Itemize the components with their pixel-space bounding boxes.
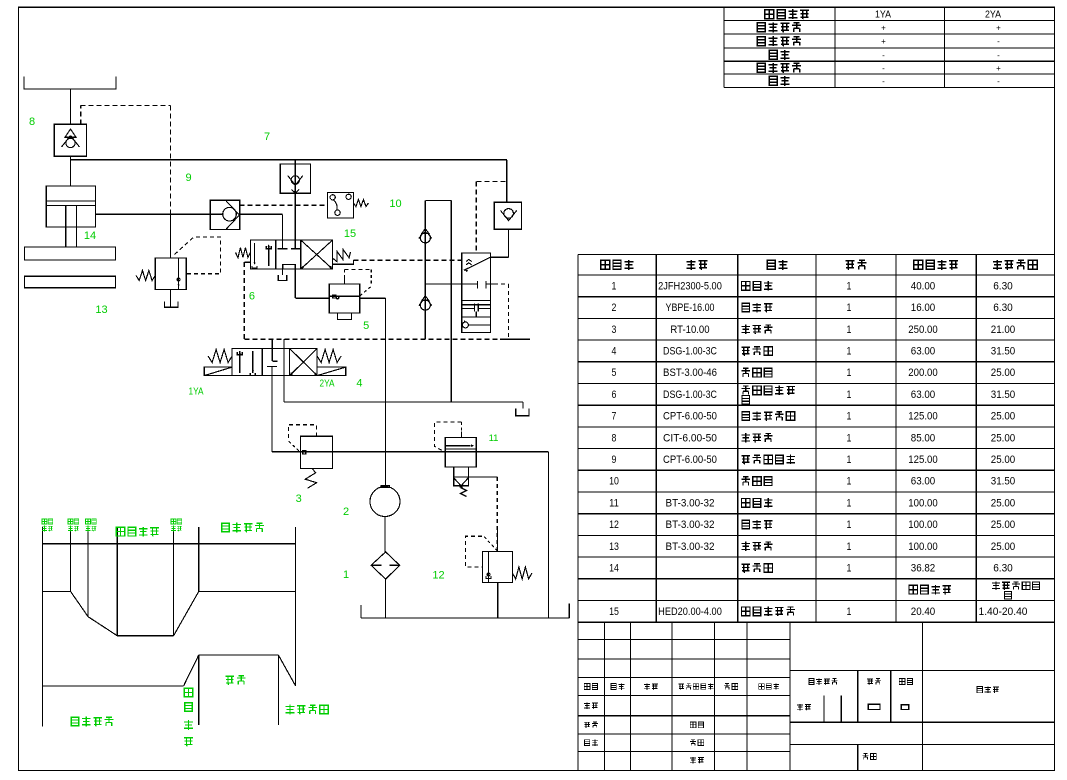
svg-text:9: 9	[186, 172, 192, 184]
svg-text:RT-10.00: RT-10.00	[670, 324, 709, 336]
svg-text:1: 1	[847, 497, 852, 509]
svg-text:13: 13	[95, 304, 107, 316]
svg-text:-: -	[882, 51, 885, 60]
svg-text:DSG-1.00-3C: DSG-1.00-3C	[663, 389, 717, 401]
svg-text:1: 1	[847, 476, 852, 488]
svg-text:1: 1	[847, 345, 852, 357]
svg-text:250.00: 250.00	[908, 324, 937, 336]
svg-text:100.00: 100.00	[908, 541, 937, 553]
svg-text:-: -	[997, 77, 1000, 86]
svg-text:1: 1	[612, 280, 617, 292]
svg-text:11: 11	[489, 433, 499, 444]
svg-text:1: 1	[847, 541, 852, 553]
svg-text:31.50: 31.50	[991, 345, 1016, 357]
svg-text:HED20.00-4.00: HED20.00-4.00	[658, 606, 722, 618]
svg-text:+: +	[881, 23, 886, 32]
svg-text:1: 1	[847, 432, 852, 444]
svg-text:1: 1	[847, 389, 852, 401]
svg-text:1: 1	[847, 324, 852, 336]
svg-text:1: 1	[847, 454, 852, 466]
svg-text:DSG-1.00-3C: DSG-1.00-3C	[663, 345, 717, 357]
svg-text:-: -	[882, 64, 885, 73]
svg-text:+: +	[996, 64, 1001, 73]
svg-text:1: 1	[847, 411, 852, 423]
svg-text:25.00: 25.00	[991, 519, 1016, 531]
svg-text:6: 6	[249, 291, 255, 303]
svg-text:10: 10	[609, 476, 619, 488]
svg-text:1: 1	[847, 280, 852, 292]
svg-text:31.50: 31.50	[991, 476, 1016, 488]
svg-text:6.30: 6.30	[993, 280, 1013, 292]
svg-text:10: 10	[389, 198, 401, 210]
svg-text:63.00: 63.00	[911, 345, 936, 357]
svg-text:12: 12	[432, 570, 444, 582]
svg-text:1: 1	[847, 519, 852, 531]
svg-text:2YA: 2YA	[320, 378, 335, 390]
svg-text:3: 3	[612, 324, 617, 336]
svg-text:5: 5	[612, 367, 617, 379]
svg-text:1: 1	[847, 367, 852, 379]
svg-text:12: 12	[609, 519, 619, 531]
svg-text:13: 13	[609, 541, 619, 553]
svg-text:CPT-6.00-50: CPT-6.00-50	[663, 411, 717, 423]
svg-text:4: 4	[356, 378, 362, 390]
svg-text:15: 15	[344, 228, 356, 240]
svg-text:36.82: 36.82	[911, 562, 936, 574]
svg-text:+: +	[996, 23, 1001, 32]
svg-text:BT-3.00-32: BT-3.00-32	[666, 541, 715, 553]
svg-text:9: 9	[612, 454, 617, 466]
svg-text:25.00: 25.00	[991, 454, 1016, 466]
svg-text:-: -	[997, 37, 1000, 46]
svg-text:+: +	[881, 37, 886, 46]
svg-text:16.00: 16.00	[911, 302, 936, 314]
svg-text:BT-3.00-32: BT-3.00-32	[666, 497, 715, 509]
svg-text:125.00: 125.00	[908, 454, 937, 466]
svg-text:1.40-20.40: 1.40-20.40	[979, 606, 1028, 618]
svg-text:1: 1	[847, 302, 852, 314]
svg-text:3: 3	[296, 493, 302, 505]
svg-text:BT-3.00-32: BT-3.00-32	[666, 519, 715, 531]
svg-text:100.00: 100.00	[908, 497, 937, 509]
svg-text:1: 1	[847, 606, 852, 618]
svg-text:2JFH2300-5.00: 2JFH2300-5.00	[658, 280, 722, 292]
svg-text:1YA: 1YA	[189, 386, 204, 398]
svg-text:31.50: 31.50	[991, 389, 1016, 401]
svg-text:CIT-6.00-50: CIT-6.00-50	[663, 432, 717, 444]
svg-text:20.40: 20.40	[911, 606, 936, 618]
svg-text:6: 6	[612, 389, 617, 401]
svg-text:2: 2	[612, 302, 617, 314]
svg-text:-: -	[882, 77, 885, 86]
svg-text:1YA: 1YA	[875, 9, 891, 21]
svg-text:1: 1	[343, 569, 349, 581]
svg-text:25.00: 25.00	[991, 541, 1016, 553]
svg-text:8: 8	[29, 116, 35, 128]
svg-text:2YA: 2YA	[985, 9, 1001, 21]
svg-text:63.00: 63.00	[911, 389, 936, 401]
svg-text:63.00: 63.00	[911, 476, 936, 488]
svg-text:25.00: 25.00	[991, 432, 1016, 444]
svg-text:15: 15	[609, 606, 619, 618]
svg-text:YBPE-16.00: YBPE-16.00	[666, 302, 715, 314]
svg-text:125.00: 125.00	[908, 411, 937, 423]
svg-text:85.00: 85.00	[911, 432, 936, 444]
svg-text:25.00: 25.00	[991, 497, 1016, 509]
svg-text:7: 7	[264, 131, 270, 143]
svg-text:7: 7	[612, 411, 617, 423]
svg-text:100.00: 100.00	[908, 519, 937, 531]
svg-text:2: 2	[343, 506, 349, 518]
svg-text:11: 11	[609, 497, 619, 509]
svg-text:CPT-6.00-50: CPT-6.00-50	[663, 454, 717, 466]
svg-text:4: 4	[612, 345, 617, 357]
svg-text:5: 5	[363, 320, 369, 332]
svg-text:25.00: 25.00	[991, 411, 1016, 423]
svg-text:-: -	[997, 51, 1000, 60]
svg-text:14: 14	[84, 230, 96, 242]
svg-text:8: 8	[612, 432, 617, 444]
svg-text:6.30: 6.30	[993, 302, 1013, 314]
svg-text:200.00: 200.00	[908, 367, 937, 379]
svg-text:14: 14	[609, 562, 619, 574]
svg-text:BST-3.00-46: BST-3.00-46	[663, 367, 717, 379]
svg-text:40.00: 40.00	[911, 280, 936, 292]
svg-text:6.30: 6.30	[993, 562, 1013, 574]
svg-text:21.00: 21.00	[991, 324, 1016, 336]
svg-text:1: 1	[847, 562, 852, 574]
svg-text:25.00: 25.00	[991, 367, 1016, 379]
